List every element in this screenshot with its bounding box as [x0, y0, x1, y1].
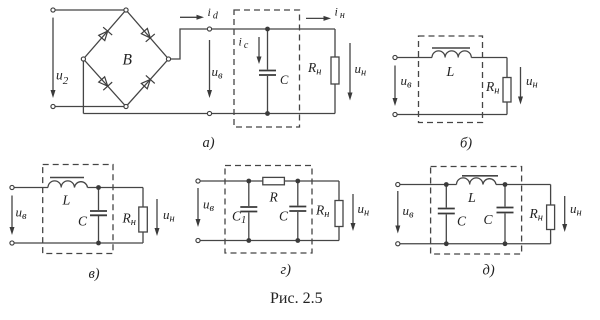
svg-text:id: id: [208, 5, 219, 22]
svg-text:д): д): [483, 263, 495, 279]
svg-text:uв: uв: [401, 73, 413, 91]
svg-text:Rн: Rн: [529, 206, 543, 224]
svg-text:Rн: Rн: [315, 203, 329, 221]
svg-text:L: L: [467, 191, 476, 206]
svg-text:а): а): [203, 135, 215, 151]
svg-text:uв: uв: [403, 203, 415, 221]
svg-text:uн: uн: [355, 61, 367, 79]
svg-text:R: R: [269, 190, 279, 205]
svg-text:uн: uн: [163, 207, 175, 225]
svg-text:в): в): [89, 266, 100, 282]
svg-text:L: L: [62, 194, 71, 209]
svg-text:u2: u2: [56, 68, 69, 88]
svg-text:C: C: [484, 212, 494, 227]
svg-text:Rн: Rн: [122, 211, 136, 229]
svg-text:ic: ic: [239, 35, 249, 52]
svg-text:C: C: [280, 73, 289, 87]
svg-text:iн: iн: [335, 5, 345, 22]
svg-text:C: C: [279, 209, 289, 224]
svg-text:uн: uн: [570, 201, 582, 219]
svg-text:uв: uв: [212, 64, 224, 82]
svg-text:C: C: [78, 214, 88, 229]
svg-text:Рис. 2.5: Рис. 2.5: [270, 290, 323, 307]
svg-text:г): г): [281, 262, 292, 278]
svg-text:uн: uн: [358, 201, 370, 219]
svg-text:Rн: Rн: [485, 79, 499, 97]
svg-text:uв: uв: [16, 205, 28, 223]
svg-text:б): б): [460, 136, 472, 152]
svg-text:Rн: Rн: [307, 60, 321, 78]
svg-text:uн: uн: [526, 73, 538, 91]
svg-text:C: C: [457, 214, 467, 229]
svg-text:L: L: [446, 65, 455, 80]
svg-text:B: B: [123, 52, 133, 69]
svg-text:uв: uв: [203, 197, 215, 215]
